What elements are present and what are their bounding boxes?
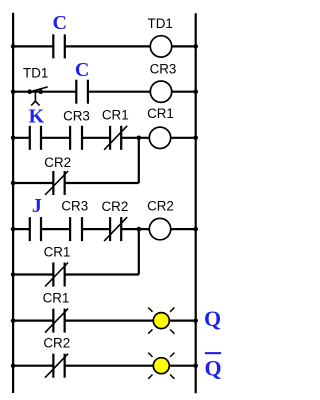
svg-text:CR2: CR2	[44, 155, 71, 170]
svg-text:J: J	[32, 195, 42, 217]
svg-text:CR3: CR3	[150, 62, 177, 77]
svg-text:Q: Q	[204, 356, 221, 381]
svg-text:TD1: TD1	[23, 65, 48, 80]
svg-text:C: C	[75, 59, 89, 81]
svg-text:CR3: CR3	[61, 198, 88, 213]
svg-text:CR1: CR1	[102, 107, 129, 122]
svg-text:C: C	[52, 12, 66, 34]
svg-text:K: K	[29, 105, 45, 127]
svg-text:CR1: CR1	[147, 106, 174, 121]
svg-text:CR2: CR2	[43, 335, 70, 350]
svg-text:CR3: CR3	[63, 109, 90, 124]
svg-text:CR1: CR1	[44, 244, 71, 259]
svg-text:CR1: CR1	[43, 291, 70, 306]
svg-text:CR2: CR2	[102, 199, 129, 214]
svg-text:TD1: TD1	[148, 16, 173, 31]
svg-text:CR2: CR2	[147, 199, 174, 214]
svg-text:Q: Q	[204, 306, 221, 331]
